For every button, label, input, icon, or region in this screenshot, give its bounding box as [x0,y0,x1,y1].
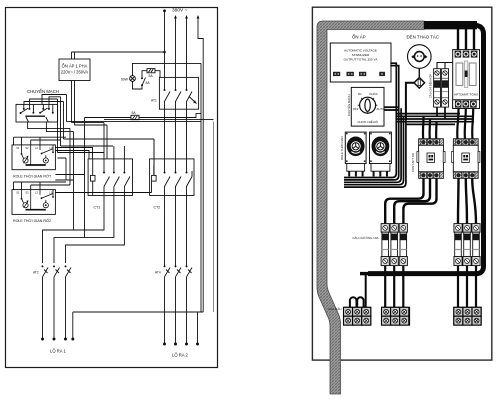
svg-text:CONT ACT OR: CONT ACT OR [411,153,415,172]
svg-text:S2: S2 [25,146,29,150]
svg-text:ỔN ÁP: ỔN ÁP [352,35,366,40]
svg-text:ROLE THỜI GIAN RỚT: ROLE THỜI GIAN RỚT [13,173,52,178]
svg-text:CẦU CHÌ ỐNG 10A: CẦU CHÌ ỐNG 10A [352,235,378,240]
svg-text:380V ~: 380V ~ [172,8,188,14]
svg-text:LỘ RA 2: LỘ RA 2 [172,353,188,358]
svg-text:5A: 5A [149,74,154,78]
svg-text:CHỌN CHẾ ĐỘ: CHỌN CHẾ ĐỘ [357,119,378,124]
svg-text:ROLE THỜI GIAN RỚ2: ROLE THỜI GIAN RỚ2 [13,218,51,223]
svg-text:CT1: CT1 [94,206,101,210]
svg-text:220V~ / 350VA: 220V~ / 350VA [61,70,89,75]
svg-text:S2: S2 [25,191,29,195]
svg-text:AT2: AT2 [33,271,39,275]
svg-text:ROLE THỜI GIAN: ROLE THỜI GIAN [339,136,344,160]
svg-text:OUTPUT TOTAL 350 VA: OUTPUT TOTAL 350 VA [344,58,379,62]
svg-text:CT2: CT2 [154,206,161,210]
svg-text:LỘ RA 1: LỘ RA 1 [50,349,66,354]
svg-text:AUTO: AUTO [377,107,386,111]
svg-text:ĐÈN THAO TÁC: ĐÈN THAO TÁC [407,35,440,40]
svg-text:AT4: AT4 [155,271,161,275]
svg-text:5A: 5A [146,81,151,85]
svg-text:ỔN ÁP 1 PHA: ỔN ÁP 1 PHA [62,64,88,69]
svg-text:CHUYỂN MẠCH: CHUYỂN MẠCH [346,94,351,116]
svg-text:CẦU ĐẤU: CẦU ĐẤU [328,306,342,311]
svg-text:KHÓA: KHÓA [370,91,378,96]
svg-text:STABILIZER: STABILIZER [352,53,370,57]
svg-text:CHUYỂN MẠCH: CHUYỂN MẠCH [27,89,59,94]
svg-text:60W: 60W [121,77,129,81]
svg-text:S1: S1 [16,146,20,150]
svg-text:R1: R1 [358,92,362,96]
svg-text:5A: 5A [132,111,137,115]
svg-text:AT1: AT1 [151,99,157,103]
svg-text:AUTOMATIC VOLTAGE: AUTOMATIC VOLTAGE [344,49,377,53]
svg-text:S1: S1 [16,191,20,195]
svg-text:OFF: OFF [353,107,359,111]
svg-text:APTOMAT TỔNG: APTOMAT TỔNG [454,92,479,97]
